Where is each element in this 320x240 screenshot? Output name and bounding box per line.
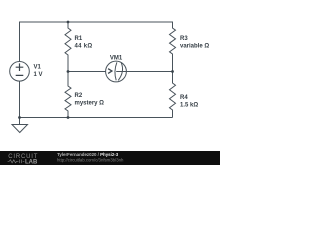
resistor R2	[65, 72, 71, 118]
wire middle left	[68, 71, 106, 73]
svg-text:1 V: 1 V	[34, 72, 43, 78]
svg-text:R4: R4	[180, 95, 188, 101]
footer bar	[0, 151, 220, 165]
wire left rail upper	[19, 22, 21, 62]
svg-text:R3: R3	[180, 36, 188, 42]
ground	[12, 125, 28, 133]
svg-text:variable Ω: variable Ω	[180, 44, 209, 50]
node junction ground	[18, 116, 21, 119]
svg-text:mystery Ω: mystery Ω	[75, 101, 105, 107]
resistor R3	[170, 22, 176, 72]
svg-text:1.5 kΩ: 1.5 kΩ	[180, 103, 198, 109]
wire left rail lower	[19, 81, 21, 118]
resistor R1	[65, 22, 71, 72]
voltmeter VM1	[106, 61, 127, 82]
svg-text:R1: R1	[75, 36, 83, 42]
wire top rail	[20, 21, 173, 23]
voltage source V1	[10, 62, 30, 82]
wire bottom rail	[20, 117, 173, 119]
node junction bottom R2	[67, 116, 70, 119]
node junction mid R3/R4	[171, 70, 174, 73]
resistor R4	[170, 72, 176, 118]
node junction top R1	[67, 21, 70, 24]
svg-text:TylerFernandez020 / Physi2-3: TylerFernandez020 / Physi2-3	[57, 152, 119, 157]
wire ground stub	[19, 118, 21, 125]
svg-text:V1: V1	[34, 65, 42, 71]
node junction mid R1/R2	[67, 70, 70, 73]
svg-text:VM1: VM1	[110, 56, 123, 62]
svg-text:44 kΩ: 44 kΩ	[75, 44, 93, 50]
footer CircuitLab logo	[8, 154, 39, 165]
svg-text:R2: R2	[75, 93, 83, 99]
svg-text:http://circuitlab.com/c/3nfsm3: http://circuitlab.com/c/3nfsm3b/3nh	[57, 157, 124, 162]
svg-text:LAB: LAB	[25, 160, 38, 166]
wire middle right	[126, 71, 172, 73]
